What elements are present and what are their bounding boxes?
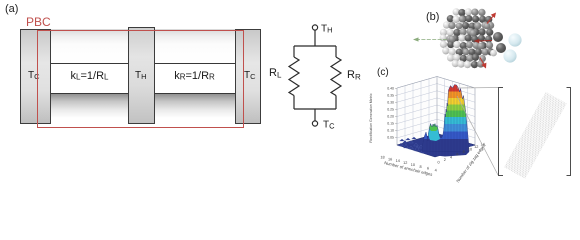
circuit: thermal resistor network [260,0,370,140]
resistor R_R zigzag [331,57,341,96]
wire left branch upper [293,46,295,57]
wire to T_C [314,109,316,121]
panel label (b) [426,11,439,23]
3D axes box walls [397,77,437,146]
svg-text:Number of armchair edges: Number of armchair edges [384,160,433,177]
label PBC [26,15,51,29]
slab T_H center [128,27,155,124]
left bracket [499,88,504,176]
side group carbon sphere upper [493,32,503,42]
side group pale hydrogen sphere upper [508,33,521,46]
label kR=1/RR [154,70,235,82]
svg-text:0.40: 0.40 [387,87,394,91]
svg-text:0.25: 0.25 [387,108,394,112]
secondary peak cyan band [428,129,440,141]
node T_C terminal circle [312,121,317,126]
svg-text:Rectification Generation Metri: Rectification Generation Metric [369,93,373,142]
svg-text:0.30: 0.30 [387,101,394,105]
svg-text:TH: TH [321,24,333,35]
svg-text:0.20: 0.20 [387,115,394,119]
axes edges [397,77,437,146]
svg-text:0: 0 [437,161,439,165]
small blue spikes on floor [399,143,404,146]
svg-text:0.10: 0.10 [387,129,394,133]
red arrow (middle, pointing left) [474,39,493,43]
svg-text:RR: RR [347,69,361,82]
panel label (a) [5,3,18,15]
label kL=1/RL [51,70,128,82]
lattice strip [504,92,567,179]
svg-text:8: 8 [463,150,465,154]
panel b: molecule cluster [400,0,580,78]
bottom shaded band of slab bar [20,94,261,124]
graphene flake spheres [440,8,495,68]
svg-text:10: 10 [468,148,472,152]
red arrow (top right) [487,13,496,24]
svg-text:4: 4 [435,168,437,172]
floor (dark blue surface base) [397,134,475,158]
svg-text:RL: RL [269,67,282,80]
svg-text:0.15: 0.15 [387,122,394,126]
wire bottom rail [294,108,336,110]
top shaded band of slab bar [20,29,261,63]
side group small hydrogen [490,50,497,57]
wall grid [397,126,475,137]
secondary peak green cap [429,124,438,131]
wire right branch lower [335,96,337,110]
label T_H center [135,70,147,81]
PBC red boundary box [37,30,244,128]
red arrow (bottom) [480,58,486,69]
panel c: 3D surface plot + lattice in brackets [365,60,580,190]
svg-text:2: 2 [444,158,446,162]
wire top rail [294,45,336,47]
label T_C right [244,70,256,81]
svg-text:4: 4 [450,155,452,159]
panel label (c) [377,67,389,78]
wire from T_H down [314,30,316,46]
node T_H terminal circle [312,25,317,30]
green arrow (pointing left) [413,37,447,41]
right bracket [567,88,571,176]
label T_C left [28,70,40,81]
side group pale hydrogen sphere lower [503,49,516,62]
callout line upper [457,87,498,90]
box kR=1/RR [154,63,235,94]
slab T_C right [235,29,261,124]
svg-text:0.35: 0.35 [387,94,394,98]
side group carbon sphere lower [496,43,506,53]
slab T_C left [20,29,51,124]
surface mountain (clipped elevation bands) [420,82,472,157]
wire left branch lower [293,96,295,110]
wire right branch upper [335,46,337,57]
svg-text:TC: TC [323,120,335,131]
mountain outline [422,85,469,153]
svg-text:6: 6 [456,153,458,157]
callout line lower [457,96,498,175]
svg-text:0.05: 0.05 [387,136,394,140]
svg-text:18: 18 [380,156,384,160]
resistor R_L zigzag [289,57,299,96]
box kL=1/RL [51,63,128,94]
